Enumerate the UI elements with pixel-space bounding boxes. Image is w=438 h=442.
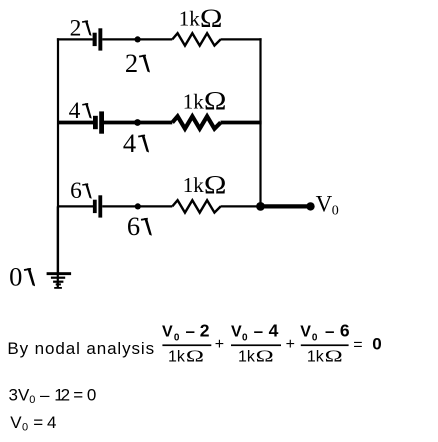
wire: top row segment (resistor to right rail) (221, 38, 262, 40)
wire: bottom row segment (battery to resistor) (102, 205, 172, 207)
wire: middle row segment (resistor to right rail) (221, 121, 262, 125)
svg-text:4: 4 (69, 98, 81, 124)
svg-text:1k: 1k (238, 349, 256, 366)
svg-text:0: 0 (312, 332, 318, 343)
wire: right vertical rail (259, 38, 261, 206)
svg-text:6: 6 (340, 321, 350, 341)
svg-text:Ω: Ω (204, 171, 227, 199)
wire: ground stem (57, 206, 59, 288)
svg-text:2: 2 (200, 321, 210, 341)
svg-text:1k: 1k (307, 349, 325, 366)
svg-text:1k: 1k (183, 173, 205, 197)
svg-text:0: 0 (9, 262, 22, 292)
svg-text:+: + (215, 336, 224, 353)
svg-text:0: 0 (29, 394, 35, 406)
svg-text:Ω: Ω (256, 346, 274, 365)
svg-text:6: 6 (70, 178, 82, 204)
svg-text:2: 2 (125, 48, 138, 78)
battery V2 4V plates (row 2) (93, 116, 98, 129)
wire: middle row segment (battery to resistor) (104, 121, 172, 125)
fraction 2: (V0 - 4)/1k (231, 321, 279, 344)
svg-text:V: V (10, 413, 22, 432)
terminal dot V0 (306, 202, 314, 210)
svg-text:–: – (40, 385, 50, 404)
svg-text:=: = (353, 337, 362, 354)
svg-text:0: 0 (22, 422, 28, 434)
svg-text:=: = (33, 413, 43, 432)
svg-text:0: 0 (332, 203, 339, 218)
svg-text:Ω: Ω (186, 346, 204, 365)
wire: left vertical rail (57, 38, 59, 272)
wire: thick output stub to V0 (261, 204, 311, 208)
svg-text:4: 4 (47, 413, 56, 432)
resistor R1 1k (row 1 zigzag) (172, 33, 220, 45)
svg-text:V: V (162, 324, 173, 341)
svg-text:6: 6 (127, 211, 140, 241)
svg-text:–: – (325, 322, 334, 341)
battery V3 6V plates (row 3) (93, 200, 97, 213)
resistor R3 1k (row 3 zigzag) (172, 200, 220, 212)
svg-text:1k: 1k (179, 7, 201, 31)
ground symbol bars (47, 272, 72, 275)
equation: By nodal analysis (7, 321, 381, 434)
svg-text:V: V (316, 191, 333, 216)
svg-text:Ω: Ω (204, 88, 227, 116)
svg-text:–: – (254, 322, 263, 341)
svg-text:Ω: Ω (200, 5, 223, 33)
svg-text:0: 0 (174, 332, 180, 343)
junction dot (right rail meets output) (256, 202, 265, 211)
svg-text:Ω: Ω (325, 346, 343, 365)
wire: bottom row segment (resistor to junction) (221, 205, 261, 207)
node dot (row 2) (134, 119, 141, 126)
svg-text:=: = (73, 385, 83, 404)
wire: bottom row segment (left rail to battery) (58, 205, 93, 207)
wire: middle row segment (left rail to battery) (58, 121, 93, 125)
node dot (row 1) (135, 36, 141, 42)
svg-text:1k: 1k (183, 89, 205, 113)
svg-text:By nodal analysis: By nodal analysis (7, 339, 155, 358)
node dot (row 3) (135, 203, 141, 209)
fraction 3: (V0 - 6)/1k (300, 321, 350, 344)
svg-text:1k: 1k (168, 349, 186, 366)
svg-text:4: 4 (123, 128, 136, 158)
svg-text:V: V (300, 324, 311, 341)
svg-text:3V: 3V (9, 385, 30, 404)
svg-text:0: 0 (87, 385, 96, 404)
wire: top row segment (battery to resistor) (102, 38, 172, 40)
resistor R2 1k (row 2 zigzag) (172, 116, 220, 128)
svg-text:4: 4 (269, 321, 279, 341)
svg-text:V: V (231, 324, 242, 341)
fraction 1: (V0 - 2)/1k (162, 321, 210, 344)
svg-text:0: 0 (242, 332, 248, 343)
wire: top row segment (left of battery) (57, 38, 93, 40)
battery V1 2V plates (row 1) (93, 33, 97, 46)
svg-text:2: 2 (61, 385, 70, 404)
svg-text:2: 2 (70, 15, 82, 41)
svg-text:–: – (186, 322, 195, 341)
svg-text:0: 0 (372, 335, 381, 354)
svg-text:+: + (286, 336, 295, 353)
